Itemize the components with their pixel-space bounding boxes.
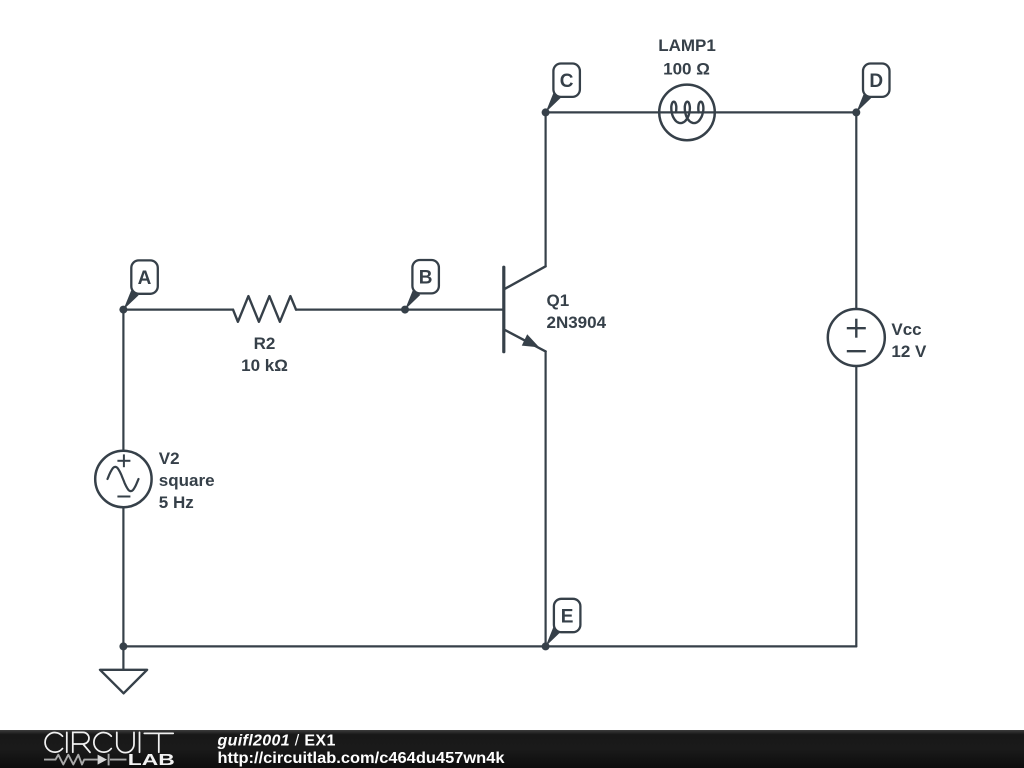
Vcc minus sign [847,350,866,352]
footer bar [0,730,1024,768]
svg-text:R2: R2 [254,334,276,353]
wire node B to Q1 base [405,309,504,311]
node D flag tail [856,93,871,112]
node D box [863,64,890,97]
node C box [553,64,580,97]
wire node A down to V2 top [122,310,124,451]
svg-text:5 Hz: 5 Hz [159,493,194,512]
wire through LAMP1 [659,111,714,113]
ground symbol [100,670,147,694]
svg-text:B: B [419,268,433,289]
Q1 collector diagonal [504,266,546,289]
resistor R2 [233,296,296,322]
node A flag tail [123,290,138,309]
svg-text:D: D [869,71,883,92]
CircuitLab logo resistor-diode strip [44,754,127,766]
svg-text:guifl2001 / EX1: guifl2001 / EX1 [217,733,336,750]
wire Vcc top to node D [855,112,857,309]
svg-text:12 V: 12 V [891,342,927,361]
node A box [131,260,158,293]
wire node A to resistor R2 [123,309,233,311]
svg-text:LAB: LAB [128,752,175,768]
V2 minus sign [117,496,130,498]
node E junction dot [542,642,550,650]
Vcc plus sign [847,319,866,338]
wire V2 bottom to ground node [122,507,124,646]
wire node C to LAMP1 [546,111,660,113]
node B flag tail [405,290,420,309]
wire bottom rail ground to node E [123,645,545,647]
voltage source Vcc circle [828,309,885,366]
wire resistor R2 to node B [296,309,405,311]
node C junction dot [542,108,550,116]
junction dot at ground node [119,642,127,650]
svg-text:http://circuitlab.com/c464du45: http://circuitlab.com/c464du457wn4k [218,750,505,767]
svg-text:2N3904: 2N3904 [547,313,607,332]
svg-text:V2: V2 [159,449,180,468]
svg-text:10 kΩ: 10 kΩ [241,356,288,375]
svg-text:Q1: Q1 [547,291,570,310]
svg-text:square: square [159,471,215,490]
lamp LAMP1 filament coil [671,102,703,123]
svg-text:A: A [138,268,152,289]
Q1 emitter diagonal [504,330,546,352]
svg-text:100 Ω: 100 Ω [663,60,710,79]
V2 sine wave [108,467,139,491]
wire Q1 collector vertical to node C [544,112,546,266]
CircuitLab logo diode triangle [98,755,107,765]
svg-text:C: C [560,71,574,92]
wire Q1 emitter vertical to node E [544,351,546,646]
node D junction dot [852,108,860,116]
lamp LAMP1 circle [659,85,715,141]
node E box [554,599,581,632]
wire Vcc bottom vertical [855,366,857,646]
node B box [412,260,439,293]
Q1 emitter arrow [522,334,540,347]
wire bottom rail node E to Vcc bottom [546,645,857,647]
voltage source V2 circle [95,451,151,507]
Q1 base bar [502,267,505,352]
wire LAMP1 to node D [715,111,857,113]
V2 plus sign [117,454,130,467]
svg-text:E: E [561,606,574,627]
node E flag tail [546,627,561,646]
node A junction dot [119,306,127,314]
CircuitLab logo CIRCUIT word [45,732,173,752]
svg-text:LAMP1: LAMP1 [658,36,716,55]
node B junction dot [401,306,409,314]
svg-text:Vcc: Vcc [891,320,921,339]
node C flag tail [546,93,561,112]
wire ground stub [122,646,124,669]
transistor Q1 2N3904 [504,266,546,351]
